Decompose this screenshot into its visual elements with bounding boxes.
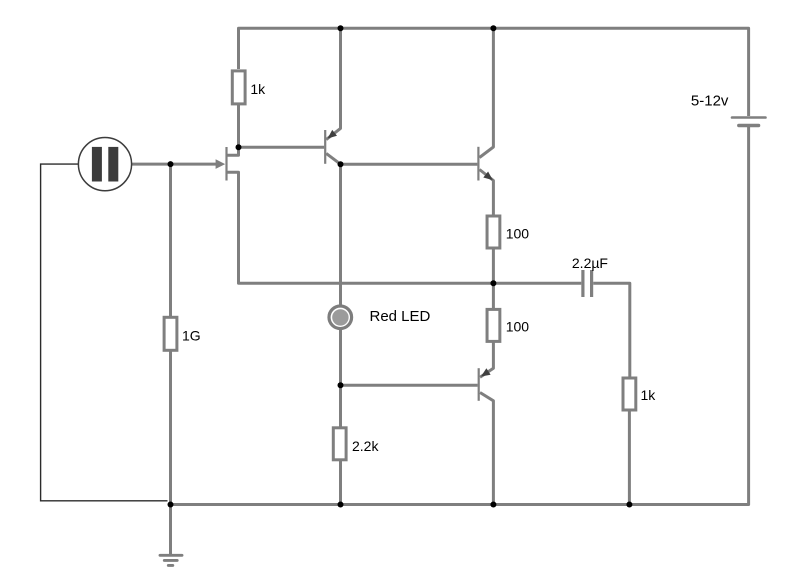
svg-text:2.2k: 2.2k	[352, 438, 379, 454]
svg-text:1k: 1k	[641, 387, 657, 403]
svg-text:2.2µF: 2.2µF	[572, 255, 608, 271]
svg-text:1G: 1G	[182, 328, 201, 344]
svg-text:5-12v: 5-12v	[691, 92, 729, 109]
svg-text:1k: 1k	[250, 81, 266, 97]
svg-text:100: 100	[506, 225, 530, 241]
svg-text:Red LED: Red LED	[370, 308, 431, 325]
svg-text:100: 100	[506, 319, 530, 335]
